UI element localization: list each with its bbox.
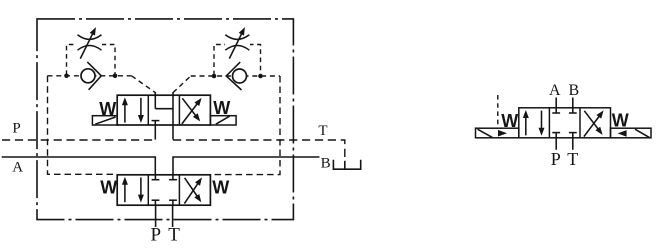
svg-text:T: T bbox=[567, 149, 578, 169]
svg-text:B: B bbox=[321, 156, 331, 172]
solenoid V1 left bbox=[92, 116, 117, 125]
label B (right port) bbox=[321, 156, 331, 172]
svg-text:W: W bbox=[213, 98, 230, 118]
label P (left port) bbox=[12, 121, 20, 137]
junction dot B-side left bbox=[212, 74, 217, 79]
directional valve V3 body (4/3) bbox=[519, 108, 611, 138]
wire: lower valve P stub bbox=[155, 205, 157, 227]
svg-text:W: W bbox=[501, 111, 518, 131]
valve V3 left position flow arrows bbox=[523, 110, 545, 136]
svg-text:W: W bbox=[99, 99, 116, 119]
directional valve V2 body (4/3) bbox=[117, 175, 210, 205]
wire: right pilot drain loop (dashed) bbox=[211, 76, 280, 175]
wire: A line bbox=[2, 157, 156, 175]
solenoid V1 right bbox=[210, 116, 236, 125]
valve V1 centre position (A,B to T, P blocked) bbox=[152, 95, 174, 125]
junction dot A-side right bbox=[113, 74, 118, 79]
wire: left pilot drain loop (dashed) bbox=[48, 76, 117, 175]
wire: drain stub (dashed) bbox=[497, 95, 499, 128]
label T (bottom) bbox=[168, 224, 180, 245]
wire: left throttle bypass loop (dashed) bbox=[67, 45, 116, 76]
valve V3 centre position (all ports blocked) bbox=[552, 108, 576, 138]
svg-text:A: A bbox=[549, 82, 561, 99]
wire: upper valve port A stub bbox=[154, 92, 156, 96]
tank symbol bbox=[333, 160, 360, 169]
throttle valve right (adjustable restrictor) bbox=[225, 27, 250, 58]
wire: T drain line (dashed) bbox=[173, 140, 345, 158]
label W solenoid V3 right bbox=[612, 111, 629, 131]
svg-text:T: T bbox=[318, 123, 327, 139]
label W solenoid V2 left bbox=[100, 177, 117, 197]
label P (bottom) bbox=[151, 224, 162, 245]
wire: right throttle bypass loop (dashed) bbox=[214, 45, 261, 76]
svg-text:P: P bbox=[12, 121, 20, 137]
valve V1 right position crossed arrows bbox=[182, 98, 202, 124]
valve V2 right position crossed arrows bbox=[184, 177, 202, 203]
label T port bbox=[567, 149, 578, 169]
label T (right port) bbox=[318, 123, 327, 139]
junction dot B-side right bbox=[258, 74, 263, 79]
valve V2 left position flow arrows bbox=[122, 177, 144, 203]
svg-text:B: B bbox=[568, 82, 579, 99]
wire: upper valve P stub bbox=[154, 125, 156, 140]
svg-text:T: T bbox=[168, 224, 180, 243]
valve V3 right position crossed arrows bbox=[584, 110, 604, 136]
label W solenoid V2 right bbox=[212, 177, 229, 197]
label P port bbox=[551, 149, 561, 169]
junction dot A-side left bbox=[64, 74, 69, 79]
label W solenoid V1 left bbox=[99, 99, 116, 119]
check valve left (ball in seat) bbox=[81, 62, 101, 90]
check valve right (ball in seat) bbox=[226, 62, 246, 90]
label A port bbox=[549, 82, 561, 99]
wire: upper valve T stub bbox=[172, 125, 174, 140]
module enclosure (dash-dot boundary) bbox=[37, 19, 293, 220]
directional valve V1 body (4/3) bbox=[117, 95, 210, 125]
wire: port T stub bbox=[572, 138, 574, 150]
svg-text:W: W bbox=[100, 177, 117, 197]
svg-text:A: A bbox=[12, 160, 23, 176]
svg-text:P: P bbox=[151, 224, 162, 243]
wire: port A stub bbox=[555, 98, 557, 108]
label W solenoid V3 left bbox=[501, 111, 518, 131]
valve V1 left position flow arrows bbox=[122, 97, 144, 123]
valve V2 centre position (all ports blocked) bbox=[152, 175, 177, 205]
solenoid V3 left (with arrow) bbox=[476, 128, 519, 138]
svg-text:P: P bbox=[551, 149, 561, 169]
wire: B-side pilot line (dashed) bbox=[173, 76, 280, 93]
svg-text:W: W bbox=[212, 177, 229, 197]
label W solenoid V1 right bbox=[213, 98, 230, 118]
wire: P pilot line (dashed) bbox=[2, 139, 155, 141]
solenoid V3 right (with arrow) bbox=[611, 128, 652, 138]
wire: port B stub bbox=[572, 98, 574, 108]
wire: lower valve T stub bbox=[172, 205, 174, 227]
svg-text:W: W bbox=[612, 111, 629, 131]
throttle valve left (adjustable restrictor) bbox=[77, 27, 102, 58]
wire: upper valve port B stub bbox=[172, 92, 174, 96]
wire: port P stub bbox=[555, 138, 557, 150]
wire: A-side pilot line (dashed) bbox=[48, 76, 156, 93]
label B port bbox=[568, 82, 579, 99]
label A (left port) bbox=[12, 160, 23, 176]
wire: B line bbox=[173, 157, 319, 175]
